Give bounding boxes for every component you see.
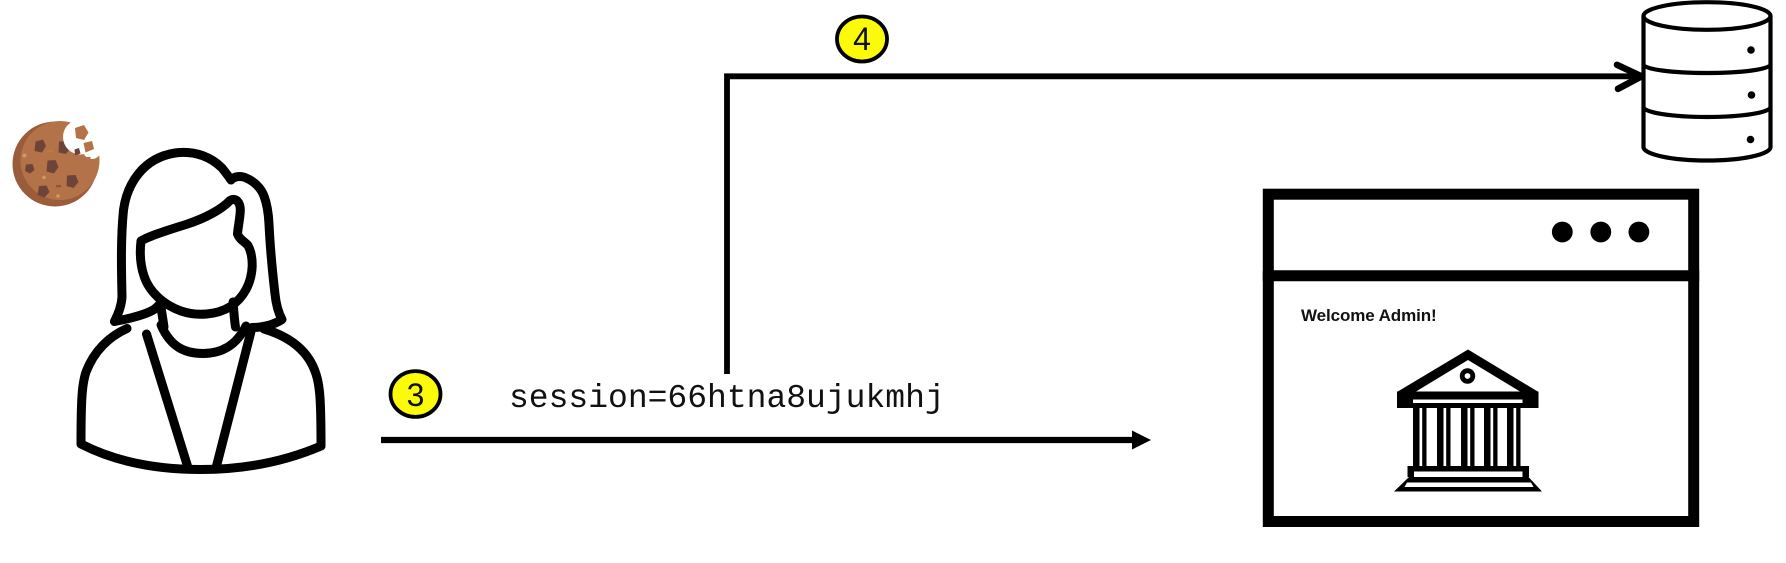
elbow arrow to database: [727, 65, 1642, 374]
hair outer: [115, 152, 283, 327]
face and fringe: [140, 199, 252, 314]
neck right: [233, 302, 236, 327]
cookie icon: [13, 120, 108, 207]
step 4 badge: [837, 17, 887, 62]
svg-text:3: 3: [407, 377, 425, 413]
v-neck right: [216, 330, 252, 469]
v-neck left: [147, 334, 188, 466]
collar: [161, 325, 246, 354]
step 3 badge: [391, 371, 441, 417]
database icon: [1644, 2, 1771, 160]
browser window: [1263, 194, 1699, 521]
hair left flick underside: [115, 304, 161, 322]
svg-text:session=66htna8ujukmhj: session=66htna8ujukmhj: [509, 380, 945, 417]
session token label: [509, 380, 945, 417]
arrow user to browser: [381, 431, 1151, 450]
bank icon: [1394, 350, 1542, 492]
svg-text:Welcome Admin!: Welcome Admin!: [1301, 306, 1437, 325]
neck left: [161, 304, 165, 328]
body: [81, 329, 321, 470]
welcome text: [1301, 306, 1437, 325]
svg-text:4: 4: [853, 21, 871, 57]
user icon: [81, 152, 321, 469]
